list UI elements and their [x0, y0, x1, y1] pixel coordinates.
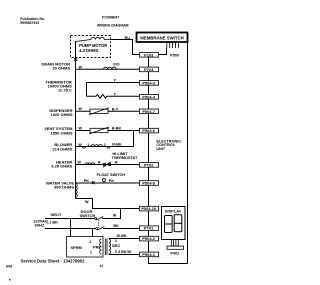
svg-text:890 OHMS: 890 OHMS	[54, 185, 74, 190]
svg-text:NEUT: NEUT	[51, 212, 62, 217]
svg-text:14: 14	[100, 264, 104, 268]
svg-text:THERMOSTAT: THERMOSTAT	[112, 156, 138, 160]
svg-text:W: W	[85, 200, 89, 204]
svg-text:4.3 OHMS: 4.3 OHMS	[79, 48, 98, 53]
svg-text:PT02: PT02	[144, 162, 154, 167]
svg-text:2: 2	[90, 240, 92, 244]
svg-text:5995527919: 5995527919	[20, 21, 39, 25]
svg-text:2: 2	[104, 143, 106, 147]
svg-text:BU: BU	[125, 36, 131, 40]
svg-text:60HZ: 60HZ	[35, 222, 45, 227]
svg-text:W-BK: W-BK	[117, 234, 128, 238]
svg-text:W: W	[113, 213, 117, 217]
svg-text:R: R	[98, 160, 101, 164]
svg-text:@ 25 C: @ 25 C	[58, 88, 72, 93]
svg-text:PK: PK	[109, 179, 115, 183]
svg-text:214 OHMS: 214 OHMS	[52, 147, 72, 152]
svg-text:W: W	[78, 107, 82, 111]
svg-text:P509: P509	[170, 54, 179, 58]
svg-text:PT01: PT01	[144, 226, 154, 231]
svg-text:P504-6: P504-6	[142, 128, 155, 133]
svg-text:1: 1	[87, 143, 89, 147]
svg-text:PK: PK	[84, 179, 90, 183]
svg-text:WIRING DIAGRAM: WIRING DIAGRAM	[97, 24, 129, 28]
svg-text:P402: P402	[170, 251, 179, 255]
svg-text:P504-7: P504-7	[142, 109, 155, 114]
svg-text:4 BK/W: 4 BK/W	[118, 250, 132, 254]
svg-text:P504-2: P504-2	[142, 236, 155, 241]
svg-text:MEMBRANE SWITCH: MEMBRANE SWITCH	[140, 36, 183, 41]
svg-text:PRI: PRI	[93, 245, 100, 250]
svg-text:P504-8: P504-8	[142, 181, 155, 186]
svg-text:R: R	[115, 160, 118, 164]
svg-text:SEC: SEC	[112, 243, 120, 248]
svg-text:UNIT: UNIT	[156, 147, 166, 151]
svg-text:R-BK: R-BK	[112, 142, 122, 146]
svg-text:F72698047: F72698047	[102, 16, 119, 20]
svg-text:W: W	[78, 127, 82, 131]
svg-text:D08: D08	[6, 265, 12, 269]
svg-text:P504-10: P504-10	[141, 206, 156, 211]
svg-text:1: 1	[90, 251, 92, 255]
svg-text:SWITCH: SWITCH	[80, 213, 96, 218]
svg-text:DISPLAY: DISPLAY	[165, 208, 182, 213]
svg-text:P504-3: P504-3	[142, 80, 155, 85]
svg-text:3: 3	[115, 239, 117, 243]
svg-text:20 OHMS: 20 OHMS	[52, 66, 70, 71]
svg-text:P103: P103	[144, 52, 154, 57]
svg-text:L1 BK: L1 BK	[47, 219, 59, 224]
svg-text:P504-1: P504-1	[142, 252, 155, 257]
svg-text:P504-4: P504-4	[142, 94, 155, 99]
svg-text:P724: P724	[144, 67, 154, 72]
svg-text:1850 OHMS: 1850 OHMS	[50, 131, 72, 136]
svg-text:BK: BK	[113, 224, 119, 228]
svg-text:FLOAT SWITCH: FLOAT SWITCH	[97, 173, 126, 177]
svg-text:1920 OHMS: 1920 OHMS	[50, 112, 72, 117]
svg-text:XFRM: XFRM	[71, 245, 83, 250]
svg-text:9.26 OHMS: 9.26 OHMS	[51, 164, 72, 169]
svg-text:R-Y: R-Y	[112, 107, 119, 111]
svg-text:W: W	[78, 143, 82, 147]
svg-text:VIO: VIO	[113, 63, 120, 67]
svg-text:Service Data Sheet - 134276902: Service Data Sheet - 134276902	[21, 259, 86, 264]
svg-text:W: W	[78, 65, 82, 69]
svg-text:5: 5	[115, 250, 117, 254]
svg-text:R-BK: R-BK	[112, 127, 122, 131]
svg-text:W: W	[77, 160, 81, 164]
